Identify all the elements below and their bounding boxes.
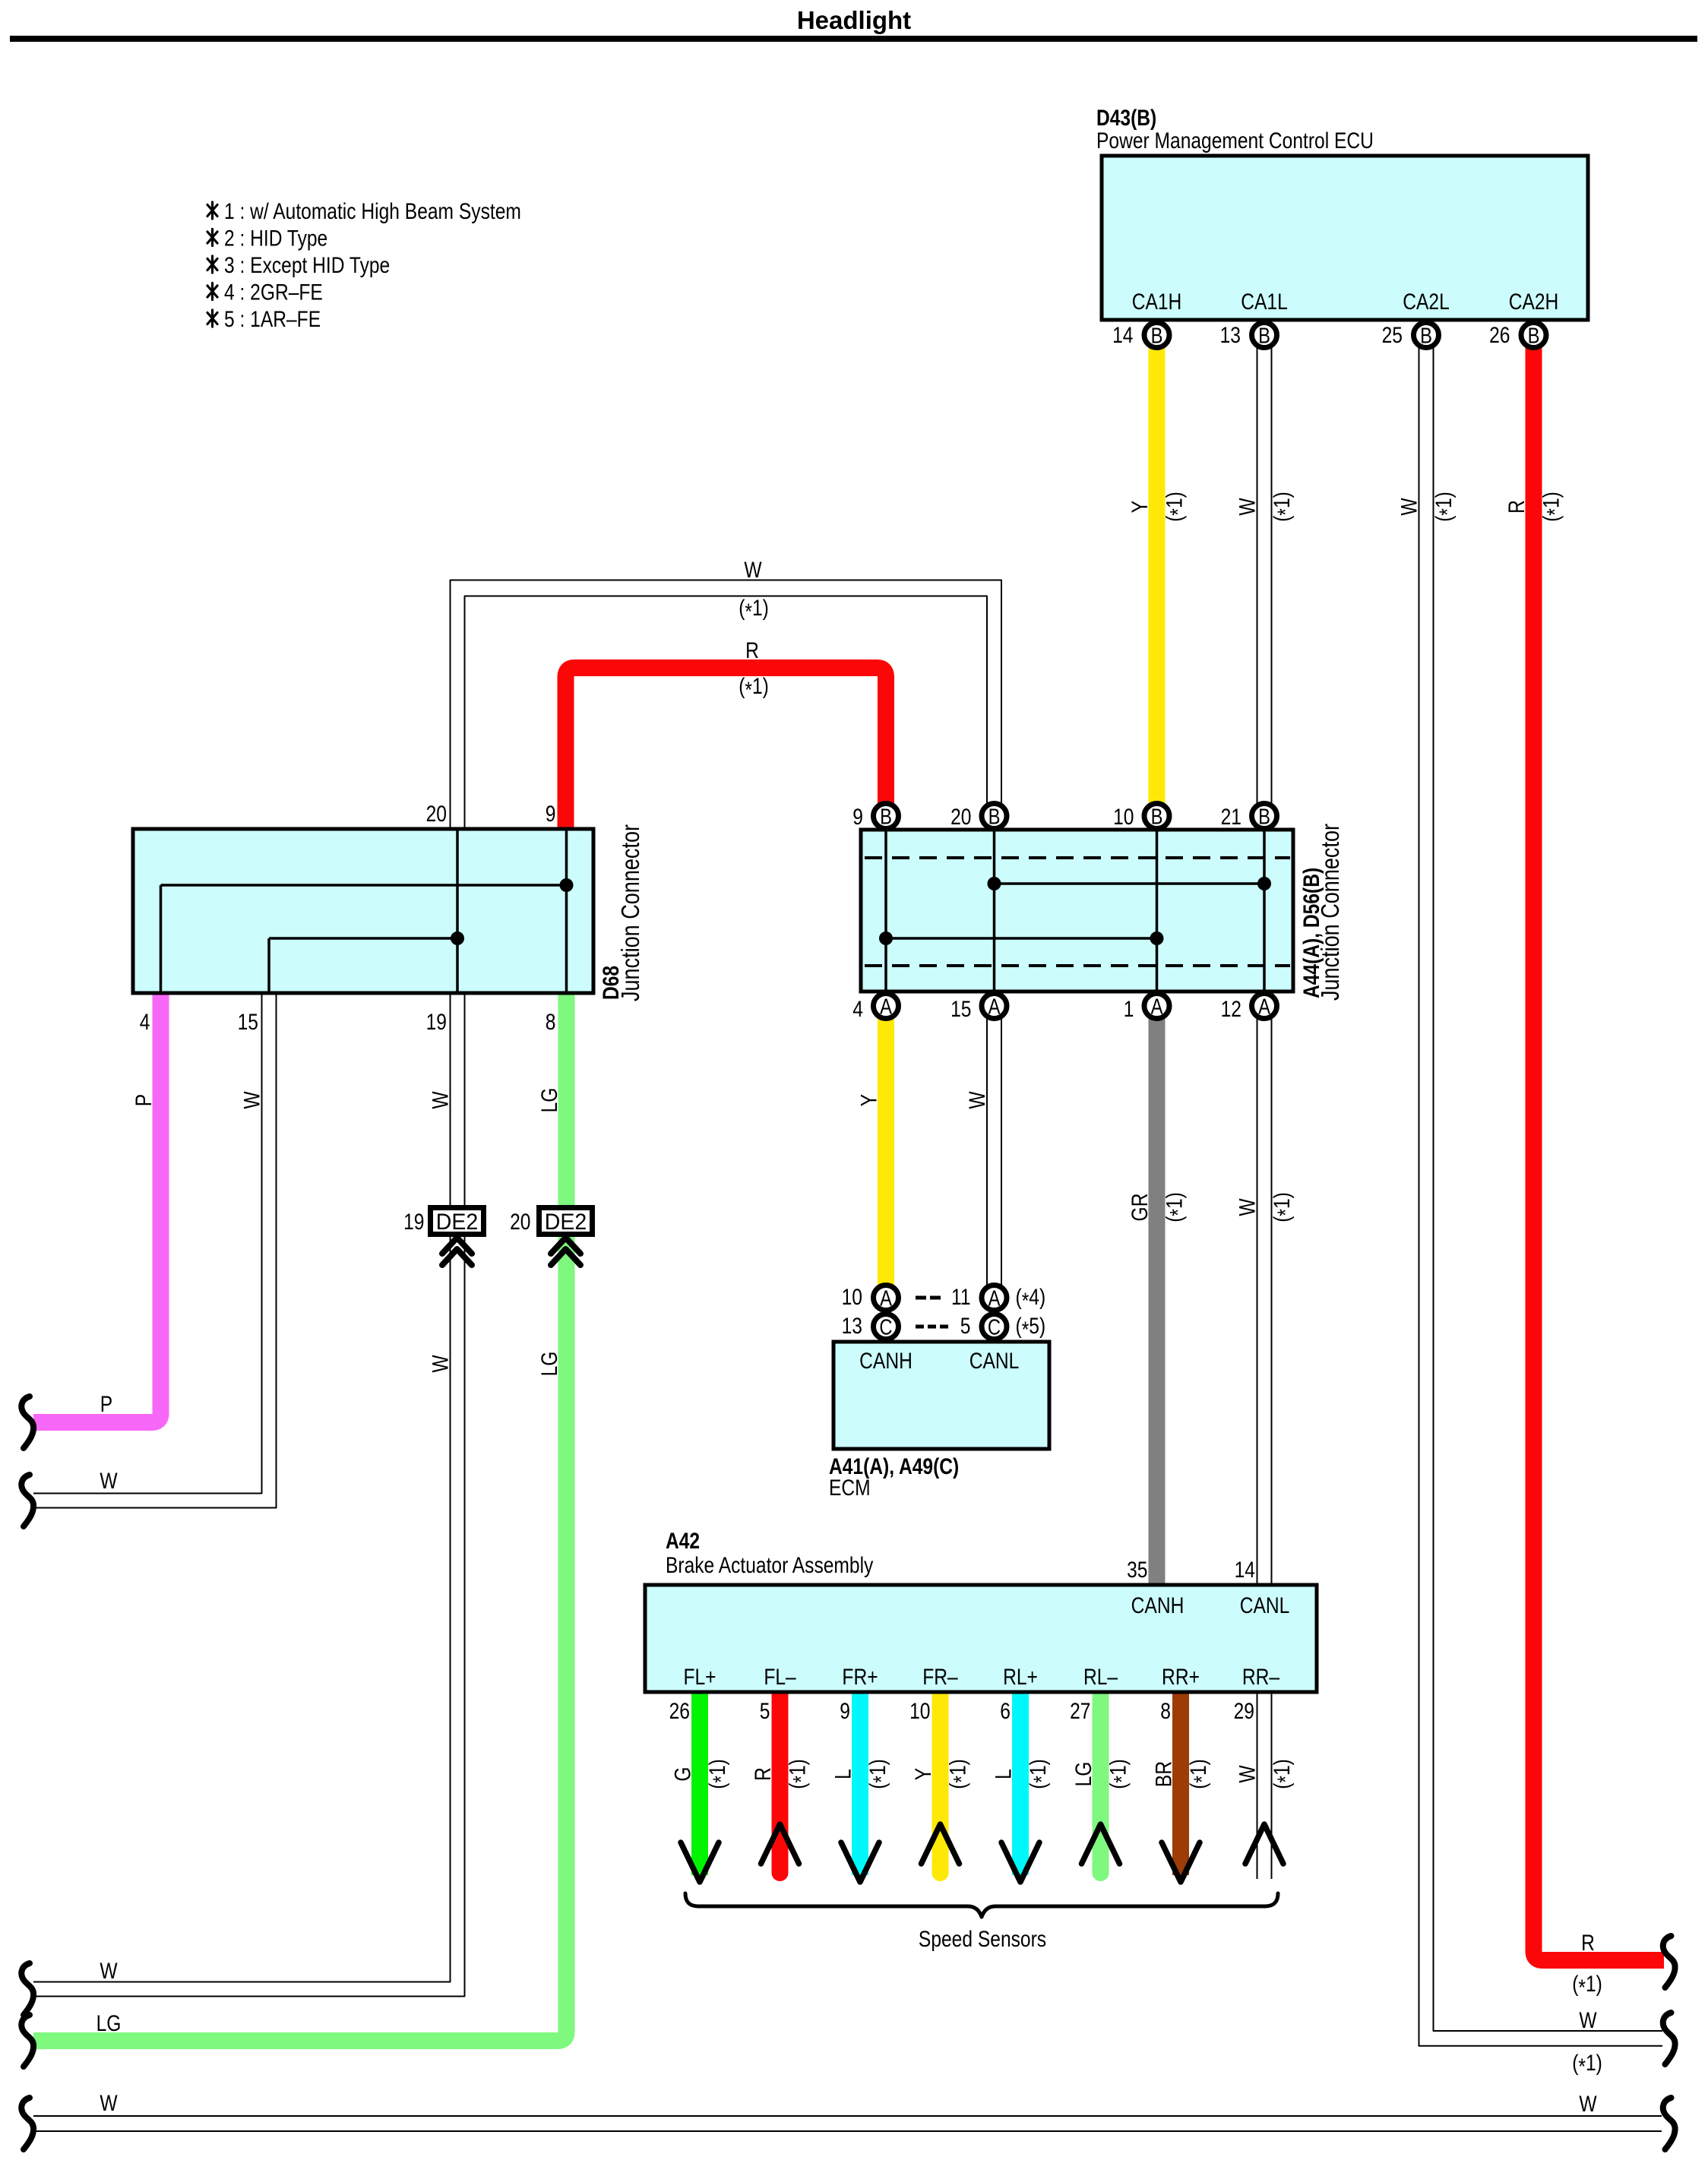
svg-text:W: W [1579,2007,1596,2033]
svg-text:(*1): (*1) [944,1759,974,1789]
svg-text:CANL: CANL [1240,1592,1290,1618]
svg-text:LG: LG [536,1088,562,1113]
svg-text:FL–: FL– [764,1664,796,1690]
svg-text:4 : 2GR–FE: 4 : 2GR–FE [224,279,323,305]
svg-text:CA1H: CA1H [1132,289,1182,315]
svg-text:RR+: RR+ [1162,1664,1200,1690]
svg-text:(*1): (*1) [1269,1192,1298,1222]
svg-text:C: C [988,1314,1001,1339]
svg-text:BR: BR [1150,1761,1176,1787]
svg-text:A: A [880,994,892,1019]
svg-text:A: A [1258,994,1270,1019]
svg-text:ECM: ECM [829,1475,871,1501]
svg-text:W: W [1234,1765,1260,1782]
svg-text:CA2L: CA2L [1403,289,1450,315]
svg-text:10: 10 [1113,804,1134,830]
svg-text:W: W [1396,498,1422,515]
svg-text:19: 19 [426,1009,447,1035]
svg-text:L: L [990,1769,1016,1779]
svg-text:21: 21 [1221,804,1241,830]
svg-text:(*1): (*1) [865,1759,894,1789]
svg-text:W: W [1234,1198,1260,1216]
svg-text:9: 9 [852,804,863,830]
svg-text:B: B [1420,323,1432,348]
svg-text:GR: GR [1127,1194,1153,1222]
svg-text:(*1): (*1) [1572,1971,1602,2000]
svg-text:LG: LG [96,2010,122,2036]
svg-text:(*1): (*1) [1538,492,1567,522]
svg-text:D43(B): D43(B) [1096,105,1156,131]
svg-text:R: R [1581,1930,1595,1956]
svg-text:(*1): (*1) [704,1759,734,1789]
svg-text:14: 14 [1112,322,1133,348]
svg-text:Speed Sensors: Speed Sensors [919,1926,1046,1952]
svg-text:(*1): (*1) [1105,1759,1134,1789]
svg-text:B: B [1528,323,1540,348]
svg-text:5: 5 [960,1313,971,1339]
svg-text:25: 25 [1382,322,1403,348]
svg-text:29: 29 [1234,1698,1254,1724]
svg-text:15: 15 [950,996,971,1022]
svg-text:G: G [669,1766,695,1781]
svg-text:10: 10 [842,1284,862,1310]
svg-text:R: R [1504,500,1529,514]
svg-text:(*1): (*1) [1572,2050,1602,2080]
svg-text:2 : HID Type: 2 : HID Type [224,225,327,251]
svg-text:(*1): (*1) [1269,492,1298,522]
svg-text:B: B [880,804,892,829]
svg-text:FL+: FL+ [683,1664,716,1690]
svg-text:Brake Actuator Assembly: Brake Actuator Assembly [666,1552,874,1578]
svg-text:(*4): (*4) [1016,1284,1046,1314]
svg-text:B: B [1151,804,1163,829]
svg-text:35: 35 [1127,1557,1147,1583]
svg-text:L: L [830,1769,856,1779]
svg-text:W: W [1579,2091,1596,2117]
svg-text:Junction Connector: Junction Connector [1317,824,1345,1001]
svg-text:A42: A42 [666,1528,700,1554]
svg-text:A: A [988,994,1001,1019]
svg-text:B: B [1151,323,1163,348]
svg-text:B: B [1258,804,1270,829]
svg-text:5 : 1AR–FE: 5 : 1AR–FE [224,306,321,332]
svg-text:W: W [1234,498,1260,515]
svg-text:FR+: FR+ [842,1664,878,1690]
svg-text:1: 1 [1124,996,1134,1022]
svg-text:Headlight: Headlight [797,6,911,34]
svg-text:Power Management Control ECU: Power Management Control ECU [1096,128,1374,153]
svg-text:C: C [879,1314,892,1339]
svg-text:14: 14 [1235,1557,1255,1583]
svg-text:9: 9 [840,1698,850,1724]
svg-text:B: B [988,804,1001,829]
svg-text:CA1L: CA1L [1241,289,1288,315]
svg-text:R: R [750,1767,776,1781]
svg-text:3 : Except HID Type: 3 : Except HID Type [224,252,390,278]
svg-text:20: 20 [426,801,447,827]
svg-text:11: 11 [951,1284,971,1310]
svg-text:15: 15 [238,1009,258,1035]
svg-text:R: R [745,637,759,663]
svg-text:RL–: RL– [1083,1664,1118,1690]
svg-text:RL+: RL+ [1003,1664,1038,1690]
svg-text:8: 8 [546,1009,556,1035]
svg-text:8: 8 [1160,1698,1171,1724]
svg-text:20: 20 [510,1209,530,1235]
svg-text:W: W [100,1958,117,1984]
svg-text:4: 4 [140,1009,150,1035]
svg-text:A: A [1151,994,1163,1019]
svg-text:W: W [427,1091,453,1109]
svg-text:CANH: CANH [1131,1592,1185,1618]
svg-text:(*1): (*1) [739,673,769,703]
svg-text:(*1): (*1) [1161,1192,1191,1222]
svg-text:CA2H: CA2H [1509,289,1559,315]
svg-text:26: 26 [1489,322,1510,348]
svg-text:W: W [100,2090,117,2116]
svg-text:Y: Y [856,1094,881,1106]
svg-text:12: 12 [1221,996,1241,1022]
svg-text:(*1): (*1) [1025,1759,1055,1789]
svg-text:1 : w/ Automatic High Beam Sys: 1 : w/ Automatic High Beam System [224,198,521,224]
svg-text:Junction Connector: Junction Connector [618,824,645,1001]
svg-text:CANL: CANL [969,1348,1020,1374]
svg-text:Y: Y [1127,501,1153,513]
svg-text:27: 27 [1070,1698,1090,1724]
svg-text:13: 13 [1220,322,1241,348]
svg-text:W: W [744,557,761,583]
svg-text:P: P [100,1391,112,1417]
svg-text:5: 5 [760,1698,770,1724]
svg-text:CANH: CANH [859,1348,913,1374]
svg-text:W: W [239,1091,264,1109]
svg-text:(*1): (*1) [1161,492,1191,522]
svg-text:B: B [1258,323,1270,348]
svg-text:19: 19 [403,1209,424,1235]
svg-text:(*1): (*1) [739,595,769,625]
svg-text:W: W [100,1468,117,1494]
svg-text:(*1): (*1) [784,1759,814,1789]
svg-text:20: 20 [950,804,971,830]
svg-text:W: W [964,1091,990,1109]
svg-text:P: P [131,1094,157,1106]
svg-text:9: 9 [546,801,556,827]
svg-text:RR–: RR– [1242,1664,1280,1690]
svg-text:Y: Y [910,1768,936,1780]
svg-text:(*1): (*1) [1269,1759,1298,1789]
svg-text:DE2: DE2 [436,1210,478,1235]
svg-text:LG: LG [536,1352,562,1377]
svg-text:DE2: DE2 [545,1210,587,1235]
svg-text:13: 13 [842,1313,862,1339]
svg-text:A: A [880,1286,892,1311]
svg-text:(*1): (*1) [1185,1759,1215,1789]
svg-text:4: 4 [852,996,863,1022]
svg-text:LG: LG [1071,1762,1096,1787]
svg-text:10: 10 [909,1698,930,1724]
svg-text:A: A [988,1286,1001,1311]
svg-text:26: 26 [669,1698,690,1724]
svg-text:(*1): (*1) [1431,492,1460,522]
svg-text:(*5): (*5) [1016,1313,1046,1343]
svg-text:FR–: FR– [922,1664,958,1690]
svg-text:6: 6 [1000,1698,1011,1724]
svg-text:W: W [427,1355,453,1372]
